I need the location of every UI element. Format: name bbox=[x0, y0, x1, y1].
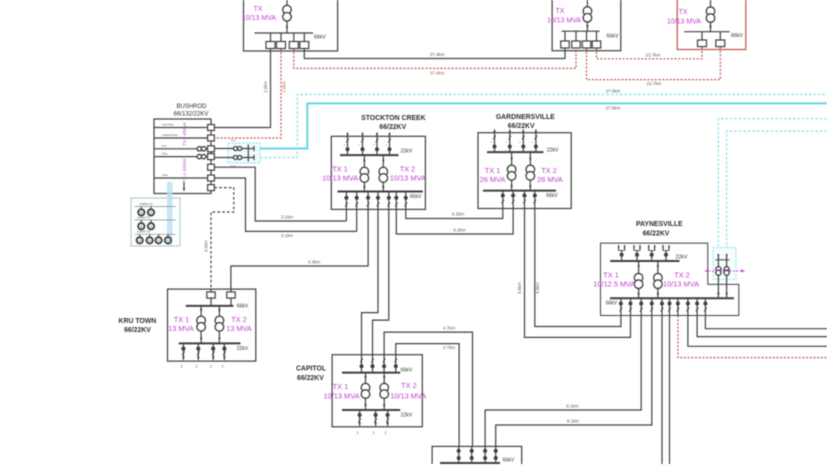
svg-text:TX 2: TX 2 bbox=[541, 166, 557, 175]
svg-text:37.4km: 37.4km bbox=[430, 52, 445, 57]
svg-text:9.8km: 9.8km bbox=[535, 282, 540, 294]
svg-text:66kV: 66kV bbox=[731, 33, 743, 39]
svg-text:37.4km: 37.4km bbox=[430, 71, 445, 76]
svg-text:66/22KV: 66/22KV bbox=[379, 124, 406, 131]
svg-text:66kV: 66kV bbox=[237, 304, 249, 310]
svg-text:66kV: 66kV bbox=[401, 368, 413, 374]
svg-text:G: G bbox=[158, 240, 160, 243]
svg-text:STOCKTON CREEK: STOCKTON CREEK bbox=[361, 115, 425, 122]
svg-text:10/13 MVA: 10/13 MVA bbox=[322, 174, 358, 183]
svg-text:66/132/22KV: 66/132/22KV bbox=[174, 112, 209, 118]
svg-text:10MW X2: 10MW X2 bbox=[139, 202, 153, 206]
svg-text:10/13 MVA: 10/13 MVA bbox=[242, 15, 276, 22]
svg-text:G: G bbox=[139, 240, 141, 243]
svg-text:G: G bbox=[149, 240, 151, 243]
svg-text:22.7km: 22.7km bbox=[646, 53, 661, 58]
svg-text:26 MVA: 26 MVA bbox=[537, 175, 563, 184]
svg-text:TX 1: TX 1 bbox=[174, 315, 190, 324]
svg-text:66kV: 66kV bbox=[314, 35, 326, 41]
svg-text:1.5km: 1.5km bbox=[282, 81, 287, 93]
svg-text:13 MVA: 13 MVA bbox=[226, 324, 252, 333]
svg-text:3.1km: 3.1km bbox=[281, 215, 294, 220]
svg-text:9.1km: 9.1km bbox=[566, 404, 579, 409]
svg-text:TX 2: TX 2 bbox=[674, 271, 690, 280]
svg-text:G: G bbox=[140, 225, 142, 228]
svg-text:27.6km: 27.6km bbox=[606, 106, 621, 111]
svg-text:22kV: 22kV bbox=[237, 346, 249, 352]
svg-text:Caldwell New: Caldwell New bbox=[162, 133, 178, 137]
svg-text:PAYNESVILLE: PAYNESVILLE bbox=[636, 221, 683, 228]
svg-text:66/22KV: 66/22KV bbox=[124, 327, 151, 334]
svg-text:10/12.5 MVA: 10/12.5 MVA bbox=[593, 280, 635, 289]
svg-text:13MW X2: 13MW X2 bbox=[137, 215, 151, 219]
svg-text:TX4: TX4 bbox=[230, 139, 236, 143]
svg-text:66kV: 66kV bbox=[410, 194, 422, 200]
svg-text:1.5km: 1.5km bbox=[263, 81, 268, 93]
svg-text:6.2km: 6.2km bbox=[452, 212, 465, 217]
svg-text:66kV: 66kV bbox=[546, 193, 558, 199]
svg-text:TX 1: TX 1 bbox=[332, 165, 348, 174]
svg-text:10/13 MVA: 10/13 MVA bbox=[323, 392, 359, 401]
svg-text:22kV: 22kV bbox=[547, 148, 559, 154]
svg-text:9.1km: 9.1km bbox=[567, 419, 580, 424]
svg-text:TX 2: TX 2 bbox=[401, 381, 417, 390]
svg-text:22.7km: 22.7km bbox=[647, 81, 662, 86]
svg-text:TX-2 40MVA: TX-2 40MVA bbox=[182, 122, 187, 146]
svg-text:Diau: Diau bbox=[162, 152, 168, 156]
svg-text:KRU TOWN: KRU TOWN bbox=[119, 318, 157, 325]
svg-text:6.6km: 6.6km bbox=[204, 240, 209, 252]
svg-text:G: G bbox=[150, 212, 152, 215]
svg-text:TX-1 40MVA: TX-1 40MVA bbox=[182, 158, 187, 182]
svg-text:4.3km: 4.3km bbox=[308, 260, 321, 265]
svg-text:GARDNERSVILLE: GARDNERSVILLE bbox=[496, 114, 555, 121]
svg-text:66/22KV: 66/22KV bbox=[297, 375, 324, 382]
svg-text:22kV: 22kV bbox=[401, 149, 413, 155]
svg-text:4.7km: 4.7km bbox=[443, 345, 456, 350]
svg-text:CAPITOL: CAPITOL bbox=[296, 366, 326, 373]
svg-text:10/13 MVA: 10/13 MVA bbox=[390, 174, 426, 183]
svg-text:10MW X4: 10MW X4 bbox=[137, 230, 151, 234]
svg-text:66kV: 66kV bbox=[606, 301, 618, 307]
svg-text:Pvd: Pvd bbox=[162, 144, 167, 148]
svg-text:TX5: TX5 bbox=[230, 165, 236, 169]
svg-text:G: G bbox=[140, 212, 142, 215]
svg-text:6.2km: 6.2km bbox=[453, 228, 466, 233]
svg-text:13 MVA: 13 MVA bbox=[168, 324, 194, 333]
svg-text:66kV: 66kV bbox=[503, 458, 515, 464]
svg-text:BUSHROD: BUSHROD bbox=[176, 104, 207, 110]
svg-text:66kV: 66kV bbox=[607, 34, 619, 40]
svg-text:26 MVA: 26 MVA bbox=[480, 175, 506, 184]
svg-text:22kV: 22kV bbox=[676, 255, 688, 261]
svg-text:TX 2: TX 2 bbox=[231, 315, 247, 324]
svg-text:9.8km: 9.8km bbox=[517, 282, 522, 294]
svg-text:10/13 MVA: 10/13 MVA bbox=[390, 392, 426, 401]
svg-text:Gwel: Gwel bbox=[162, 173, 168, 177]
svg-text:4.7km: 4.7km bbox=[443, 326, 456, 331]
svg-text:66/22KV: 66/22KV bbox=[643, 230, 670, 237]
svg-text:TX 1: TX 1 bbox=[603, 271, 619, 280]
svg-text:22kV: 22kV bbox=[401, 412, 413, 418]
svg-text:10/13 MVA: 10/13 MVA bbox=[663, 280, 699, 289]
svg-text:G: G bbox=[150, 225, 152, 228]
svg-text:TX 2: TX 2 bbox=[400, 165, 416, 174]
svg-text:TX 1: TX 1 bbox=[485, 166, 501, 175]
svg-text:Gola Diau: Gola Diau bbox=[162, 123, 174, 127]
svg-text:27.6km: 27.6km bbox=[606, 89, 621, 94]
svg-text:G: G bbox=[167, 240, 169, 243]
svg-text:3.1km: 3.1km bbox=[281, 233, 294, 238]
svg-text:10/13 MVA: 10/13 MVA bbox=[667, 19, 701, 26]
svg-text:TX: TX bbox=[556, 8, 565, 15]
svg-text:TX: TX bbox=[254, 6, 263, 13]
svg-text:TX 1: TX 1 bbox=[333, 382, 349, 391]
svg-text:TX: TX bbox=[679, 9, 688, 16]
svg-text:10/13 MVA: 10/13 MVA bbox=[547, 18, 581, 25]
svg-text:66/22KV: 66/22KV bbox=[508, 123, 535, 130]
